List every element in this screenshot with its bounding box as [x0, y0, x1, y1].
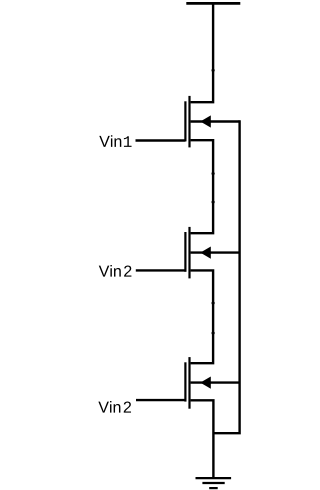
VDD rail bar — [186, 2, 240, 5]
junction nub wire M1-M2 (lower) — [212, 201, 215, 204]
label Vin2 (M3) — [98, 401, 131, 413]
wire bulk rail — [213, 120, 239, 433]
wire M3 source to ground — [191, 400, 214, 478]
wire gate lead M2 — [136, 269, 186, 271]
transistor M1 gate bar — [184, 101, 186, 141]
label Vin2 (M2) — [99, 265, 132, 277]
wire gate lead M3 — [136, 399, 185, 401]
bulk arrow M1 — [200, 115, 211, 127]
transistor M2 gate bar — [184, 232, 186, 272]
wire M3 bulk — [191, 381, 240, 383]
junction nub on VDD wire — [212, 69, 215, 72]
wire M2 source to M3 drain — [191, 270, 214, 363]
wire M2 bulk — [191, 251, 240, 253]
ground bar 3 — [209, 487, 218, 489]
bulk arrow M2 — [200, 247, 211, 259]
label Vin1 — [99, 135, 131, 147]
junction nub wire M2-M3 (upper) — [212, 302, 215, 305]
transistor M3 gate bar — [184, 362, 186, 401]
ground bar 2 — [202, 482, 224, 484]
junction nub wire M2-M3 (lower) — [212, 332, 215, 335]
junction nub wire M1-M2 (upper) — [212, 172, 215, 175]
wire M1 bulk — [191, 120, 240, 122]
transistor M3 channel bar — [188, 357, 190, 409]
bulk arrow M3 — [200, 377, 211, 389]
wire M1 source to M2 drain — [191, 140, 214, 233]
wire VDD to M1 drain — [191, 2, 214, 102]
transistor M2 channel bar — [188, 227, 190, 279]
wire gate lead M1 — [136, 139, 186, 141]
ground bar 1 — [196, 477, 232, 479]
transistor M1 channel bar — [188, 96, 190, 147]
